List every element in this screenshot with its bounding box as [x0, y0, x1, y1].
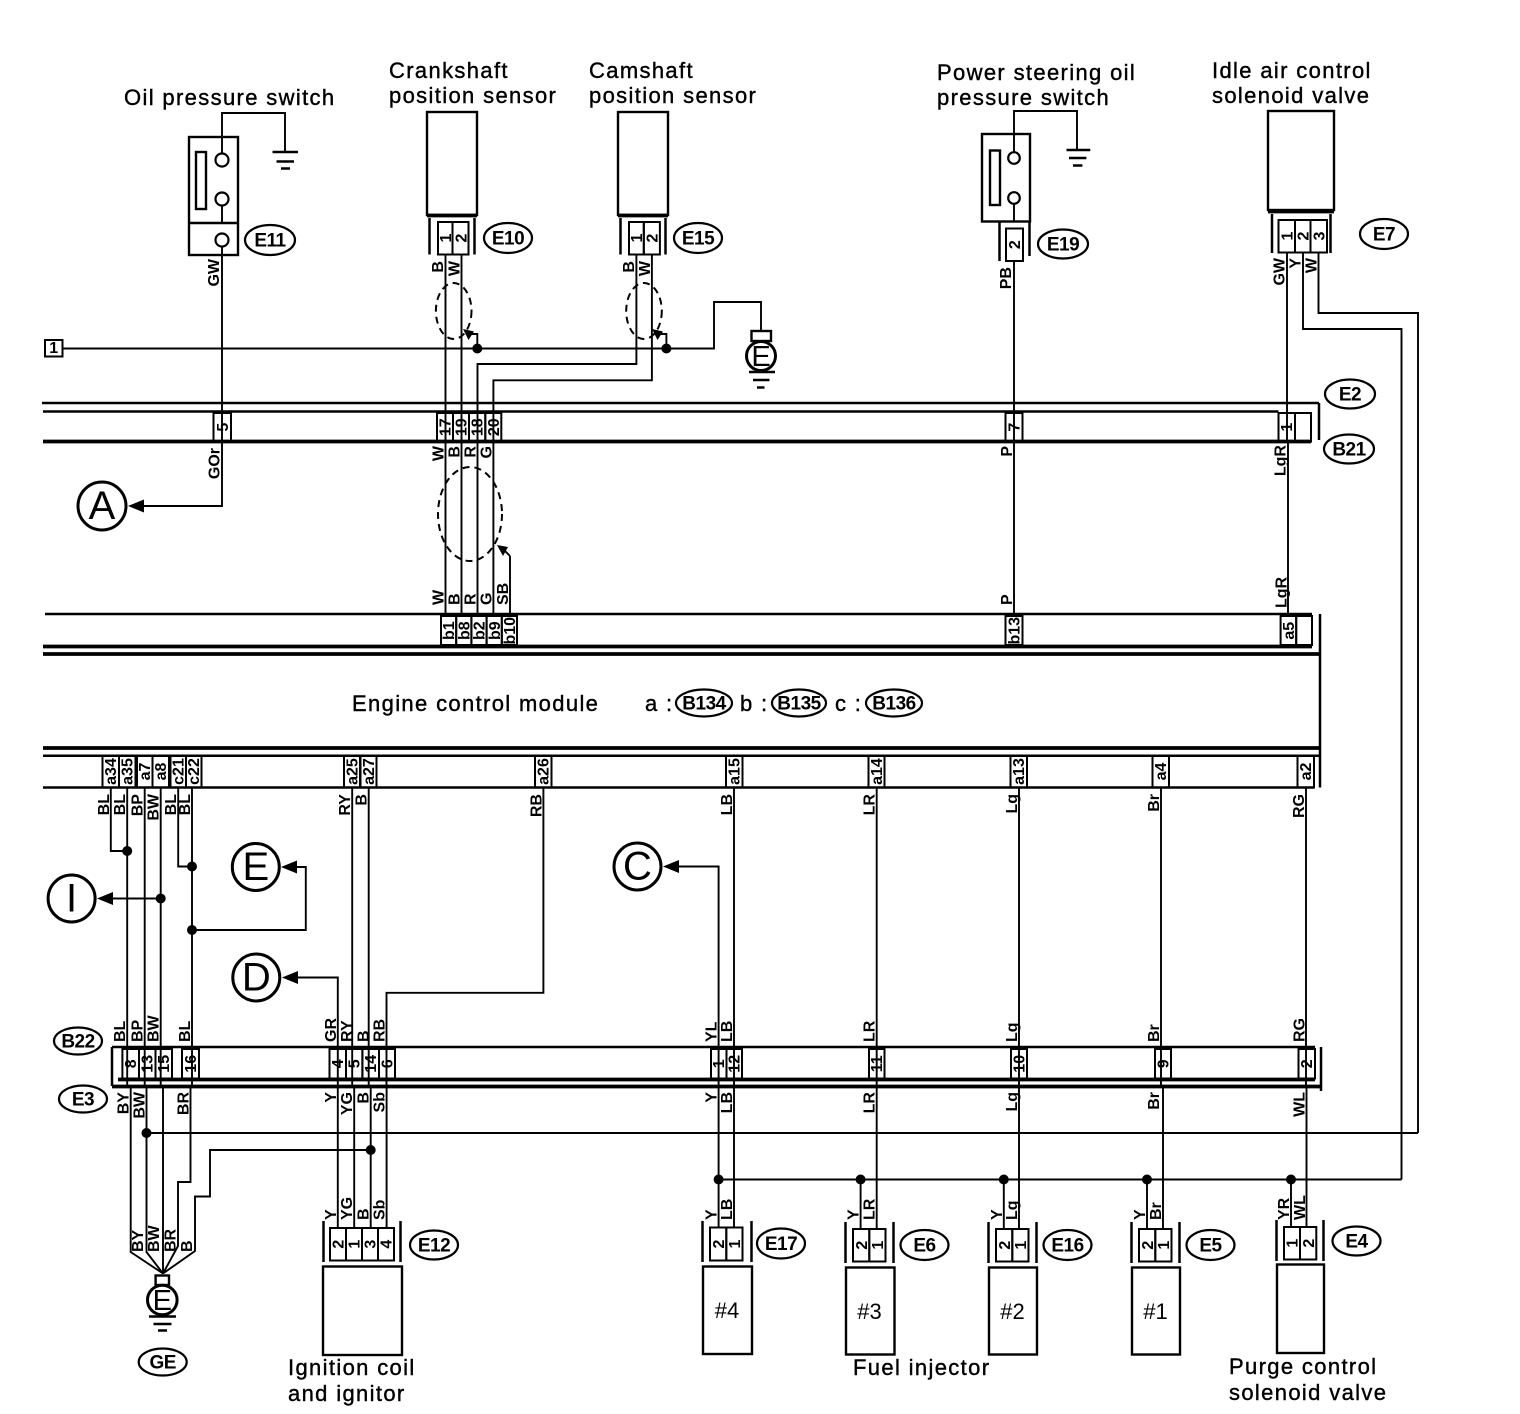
svg-text:pressure switch: pressure switch: [937, 85, 1110, 110]
svg-text:b :: b :: [740, 691, 769, 716]
bus E2/B21 top line: [42, 402, 1319, 405]
pin 9: [1155, 1049, 1173, 1079]
wire YG pin 5 to E12 pin 1: [353, 1087, 355, 1229]
svg-text:E12: E12: [418, 1236, 450, 1257]
wire B pin19 to b8: [461, 442, 463, 617]
crankshaft position sensor E10 body: [427, 112, 477, 255]
svg-text:1: 1: [1013, 1241, 1030, 1250]
power steering oil pressure switch E19 body: [982, 134, 1030, 222]
svg-text:LB: LB: [719, 1021, 736, 1042]
pin b1: [441, 616, 458, 645]
injector 2 body: [989, 1268, 1037, 1355]
pin 2 E3: [1299, 1049, 1317, 1079]
svg-text:12: 12: [727, 1055, 744, 1073]
wire Y pin 4 to E12 pin 2: [337, 1087, 339, 1229]
wire labels B W E10: [430, 260, 464, 276]
junction dot a34-a35: [122, 846, 132, 856]
shield capsule E15: [626, 283, 662, 339]
wire BL a34 joins a35: [111, 788, 127, 852]
svg-text:11: 11: [869, 1055, 886, 1072]
ECM top connector line: [45, 613, 1312, 616]
connector ref E15: [674, 223, 722, 253]
svg-text:Y: Y: [846, 1209, 863, 1220]
ECM top border thick: [43, 645, 1312, 649]
wire B a27 to pin 14: [368, 788, 370, 1087]
pin 16: [182, 1049, 200, 1079]
svg-text:16: 16: [183, 1055, 200, 1073]
svg-text:10: 10: [1012, 1055, 1029, 1073]
wire PB from E19 to bus pin 7: [1013, 261, 1015, 442]
connector ref E10: [484, 223, 532, 253]
svg-text:D: D: [242, 956, 271, 1000]
shield drain junction dots: [472, 344, 671, 354]
svg-text:GOr: GOr: [207, 448, 224, 479]
wire labels above E5: [1132, 1202, 1165, 1220]
connector ref b B135: [740, 690, 826, 717]
svg-text:W: W: [447, 260, 464, 276]
label: Idle air control solenoid valve: [1212, 58, 1372, 108]
svg-text:BW: BW: [146, 1014, 163, 1042]
svg-text:4: 4: [330, 1059, 347, 1068]
wire BP a7 to pin 13: [144, 788, 146, 1087]
wire B from E10 pin1 to pin 17: [445, 255, 447, 442]
wire BL c22 to pin 16: [191, 788, 193, 1087]
svg-text:E16: E16: [1051, 1236, 1083, 1257]
pin 12: [727, 1049, 744, 1079]
svg-text:Idle air control: Idle air control: [1212, 58, 1372, 83]
svg-text:and ignitor: and ignitor: [288, 1381, 406, 1406]
svg-text:solenoid valve: solenoid valve: [1229, 1380, 1387, 1405]
injector 3 body: [846, 1268, 895, 1355]
wire GW from E7 pin1 to bus pin 1: [1286, 253, 1288, 442]
pin b8: [456, 616, 473, 645]
page ref circle A: [78, 482, 144, 530]
wire LR pin 11 to injector 3: [876, 1087, 878, 1230]
svg-text:Y: Y: [1288, 258, 1305, 269]
svg-text:LgR: LgR: [1273, 445, 1290, 477]
wire LB pin 12 to injector 4: [733, 1087, 735, 1228]
svg-text:2: 2: [453, 233, 470, 242]
injector 3 connector E6: [846, 1222, 894, 1263]
svg-text:YG: YG: [339, 1197, 356, 1220]
ground E box circle: [747, 331, 776, 388]
page ref circle I: [48, 875, 166, 922]
pin 1 E2/B21: [1279, 413, 1312, 442]
pin c22: [186, 756, 203, 788]
wire labels below ECM row: [96, 793, 1308, 821]
svg-text:R: R: [463, 593, 480, 605]
svg-text:E7: E7: [1373, 225, 1395, 246]
svg-text:Purge control: Purge control: [1229, 1354, 1377, 1379]
page ref circle E: [187, 844, 306, 936]
svg-text:W: W: [431, 589, 448, 605]
ECM right border: [1319, 614, 1322, 788]
injector 1 connector E5: [1132, 1222, 1180, 1263]
wire E11 pin to top ground: [222, 113, 285, 154]
wire label P above b13: [999, 594, 1016, 605]
svg-text:14: 14: [363, 1055, 380, 1073]
svg-text:W: W: [637, 260, 654, 276]
svg-text:BR: BR: [163, 1228, 180, 1252]
svg-text:Br: Br: [1146, 1024, 1163, 1042]
svg-text:a8: a8: [153, 763, 170, 781]
svg-text:Lg: Lg: [1004, 1022, 1021, 1042]
svg-text:18: 18: [470, 418, 487, 436]
label: Camshaft position sensor: [589, 58, 757, 108]
connector ref E3: [59, 1086, 107, 1113]
wire label GOr: [207, 448, 224, 479]
wire labels W B R G below bus: [431, 445, 496, 461]
svg-text:3: 3: [1312, 231, 1329, 240]
svg-text:7: 7: [1007, 423, 1024, 432]
wire Br pin 9 to injector 1: [1162, 1087, 1164, 1230]
svg-text:E: E: [751, 341, 770, 373]
shield drain arrow E10: [463, 329, 477, 349]
wire W pin17 to b1: [445, 442, 447, 617]
pin b10: [502, 616, 519, 645]
pin 8: [122, 1049, 140, 1079]
svg-text:Lg: Lg: [1004, 1200, 1021, 1220]
label: Purge control solenoid valve: [1229, 1354, 1387, 1405]
label: Engine control module: [352, 691, 599, 716]
label: Ignition coil and ignitor: [288, 1355, 416, 1406]
wire BW pin 13 to ground funnel: [147, 1087, 164, 1274]
svg-text:b13: b13: [1007, 617, 1024, 645]
svg-text:4: 4: [379, 1240, 396, 1249]
svg-text:LB: LB: [719, 1199, 736, 1220]
wire BL a35 to pin 8: [126, 788, 128, 1087]
svg-text:E: E: [242, 845, 269, 889]
wire Sb pin 6 to E12 pin 4: [386, 1087, 388, 1229]
wire labels below bus E3: [116, 1091, 1309, 1119]
svg-text:position sensor: position sensor: [589, 83, 757, 108]
injector 4 body: [703, 1267, 752, 1355]
svg-text:B: B: [447, 593, 464, 605]
svg-text:a5: a5: [1281, 622, 1298, 640]
wire label LgR above a5: [1274, 576, 1291, 608]
idle air control solenoid valve E7 body: [1268, 111, 1334, 253]
pin 13: [139, 1049, 157, 1079]
wire BL c21 joins c22: [178, 788, 192, 867]
wire label LgR below pin 1: [1273, 445, 1290, 477]
pin 20: [485, 413, 503, 442]
svg-text:5: 5: [215, 423, 232, 432]
svg-text:position sensor: position sensor: [389, 83, 557, 108]
label: Power steering oil pressure switch: [937, 60, 1136, 110]
ECM bottom connector line: [43, 786, 1314, 789]
svg-text:2: 2: [1140, 1241, 1157, 1250]
wire WL pin 2 to purge valve: [1306, 1087, 1308, 1228]
bus E2/B21 thick line: [43, 440, 1311, 444]
svg-text:LR: LR: [862, 1198, 879, 1220]
pin a8: [153, 756, 171, 788]
pin 18: [469, 413, 487, 442]
label: Oil pressure switch: [124, 85, 335, 110]
pin a4: [1153, 756, 1171, 788]
svg-text:a2: a2: [1298, 763, 1315, 781]
wire label GW: [206, 258, 223, 286]
svg-text:GE: GE: [149, 1353, 175, 1374]
bus E2/B21 second line: [43, 410, 1279, 413]
wire RG a2 to pin 2: [1305, 788, 1307, 1087]
svg-text:3: 3: [363, 1240, 380, 1249]
svg-text:E15: E15: [682, 229, 715, 250]
svg-text:B: B: [356, 1030, 373, 1042]
pin 5 E3: [346, 1049, 364, 1079]
svg-text:Ignition coil: Ignition coil: [288, 1355, 416, 1380]
svg-text:1: 1: [1156, 1241, 1173, 1250]
svg-text:a15: a15: [727, 758, 744, 785]
svg-text:Oil pressure switch: Oil pressure switch: [124, 85, 335, 110]
svg-text:1: 1: [438, 233, 455, 242]
svg-text:17: 17: [438, 418, 455, 436]
svg-text:1: 1: [1279, 423, 1296, 432]
ground symbol E19: [1067, 150, 1091, 166]
svg-text:B: B: [356, 1208, 373, 1220]
svg-text:E2: E2: [1339, 385, 1361, 406]
connector ref a B134: [645, 690, 732, 717]
svg-text:8: 8: [123, 1059, 140, 1068]
svg-text:BW: BW: [146, 1224, 163, 1252]
ignition coil connector E12: [324, 1221, 401, 1262]
svg-text:RG: RG: [1292, 1018, 1309, 1042]
svg-text:Engine control module: Engine control module: [352, 691, 599, 716]
svg-text:B: B: [179, 1240, 196, 1252]
wire Y stub injector 1: [1142, 1175, 1152, 1230]
wire Y pin 1 to injector 4: [714, 1087, 724, 1228]
svg-text:a13: a13: [1011, 758, 1028, 785]
pin a15: [726, 756, 744, 788]
connector ref E7: [1360, 219, 1408, 249]
wire BW a8 to pin 15: [160, 788, 162, 1087]
wire labels W B R G above ECM: [431, 589, 496, 605]
pin 7: [1006, 413, 1024, 442]
pin 10: [1011, 1049, 1029, 1079]
svg-text:6: 6: [380, 1059, 397, 1068]
pin a14: [869, 756, 887, 788]
ECM top border second: [43, 652, 1320, 656]
injector 4 connector E17: [703, 1221, 752, 1262]
wire RB a26 to pin 6: [387, 788, 544, 1087]
svg-text:#3: #3: [857, 1299, 881, 1324]
svg-text:A: A: [89, 484, 116, 528]
page ref circle D: [233, 954, 338, 1087]
wire B branch to ground funnel: [163, 1145, 376, 1274]
shield capsule harness: [438, 467, 502, 561]
connector ref E11: [245, 225, 295, 255]
connector ref GE: [139, 1349, 187, 1376]
connector ref E12: [410, 1231, 458, 1260]
pin 5: [214, 413, 233, 442]
wire labels above bus B22: [112, 1014, 1308, 1042]
svg-text:B: B: [430, 261, 447, 273]
svg-text:W: W: [1304, 257, 1321, 273]
svg-text:9: 9: [1156, 1059, 1173, 1068]
svg-text:a25: a25: [345, 758, 362, 785]
wire LgR pin1 to a5: [1287, 442, 1289, 617]
svg-text:a :: a :: [645, 691, 674, 716]
svg-text:2: 2: [1007, 240, 1024, 249]
wire Y stub injector 3: [856, 1175, 866, 1230]
svg-text:YR: YR: [1276, 1197, 1293, 1220]
bus B22/E3 thick line 1: [118, 1078, 1315, 1082]
svg-text:1: 1: [727, 1239, 744, 1248]
svg-text:B22: B22: [61, 1032, 94, 1053]
svg-text:GW: GW: [1272, 257, 1289, 285]
pin a13: [1011, 756, 1029, 788]
wire Y line across injectors: [719, 1179, 1402, 1181]
connector ref B22: [54, 1028, 102, 1055]
svg-text:E3: E3: [72, 1090, 94, 1111]
wire BY pin 8 to ground funnel: [131, 1087, 163, 1274]
wire R pin18 to b2: [477, 442, 479, 617]
pin c21: [171, 756, 188, 788]
injector 1 body: [1132, 1268, 1180, 1355]
wire labels B W E15: [621, 260, 654, 276]
pin 6: [379, 1049, 397, 1079]
wire LR a14 to pin 11: [876, 788, 878, 1087]
pin a26: [535, 756, 553, 788]
svg-text:BP: BP: [130, 1019, 147, 1042]
bus E2/B21 right bracket: [1318, 403, 1321, 440]
svg-text:PB: PB: [998, 267, 1015, 289]
svg-text:Sb: Sb: [372, 1199, 389, 1220]
svg-text:a27: a27: [361, 758, 378, 785]
wire W line across: [142, 1128, 1419, 1138]
page ref circle C: [614, 843, 719, 1087]
svg-text:Y: Y: [323, 1209, 340, 1220]
svg-text:Camshaft: Camshaft: [589, 58, 694, 83]
pin 4: [330, 1049, 348, 1079]
wire Lg a13 to pin 10: [1018, 788, 1020, 1087]
svg-text:1: 1: [870, 1241, 887, 1250]
pin a7: [137, 756, 154, 788]
wire label PB: [998, 267, 1015, 289]
pin 14: [362, 1049, 380, 1079]
shield drain arrow E15: [652, 329, 666, 349]
connector ref c B136: [835, 690, 922, 717]
svg-text:c22: c22: [186, 758, 203, 785]
svg-text:2: 2: [997, 1241, 1014, 1250]
wire Lg pin 10 to injector 2: [1018, 1087, 1020, 1230]
wire label WL below bus done above; labels above E4: [1276, 1195, 1309, 1220]
wire GW from E11 to bus pin 5: [221, 247, 223, 442]
wire B from E15 pin1: [478, 255, 637, 442]
svg-text:#1: #1: [1143, 1299, 1167, 1324]
ground symbol top left: [273, 152, 299, 169]
svg-text:B135: B135: [777, 694, 821, 715]
svg-text:b10: b10: [502, 617, 519, 645]
injector 2 connector E16: [989, 1222, 1037, 1263]
svg-text:a26: a26: [536, 758, 553, 785]
svg-text:E17: E17: [765, 1234, 797, 1255]
bus B22/E3 thick line 2: [112, 1085, 1321, 1089]
svg-text:Crankshaft: Crankshaft: [389, 58, 509, 83]
connector E19 pin 2: [1000, 222, 1030, 262]
wire Br a4 to pin 9: [1160, 788, 1162, 1087]
svg-text:2: 2: [331, 1240, 348, 1249]
connector ref E16: [1044, 1230, 1092, 1260]
svg-text:GW: GW: [206, 258, 223, 286]
svg-text:E6: E6: [913, 1236, 935, 1257]
wire P pin7 to b13: [1013, 442, 1015, 617]
svg-text:1: 1: [49, 340, 58, 357]
connector ref E2: [1325, 380, 1375, 409]
wire shield drain line 1: [63, 302, 762, 349]
svg-text:RB: RB: [372, 1019, 389, 1042]
connector ref E5: [1187, 1230, 1235, 1260]
svg-text:13: 13: [140, 1055, 157, 1073]
svg-text:20: 20: [486, 418, 503, 436]
pin 15: [156, 1049, 174, 1079]
connector ref E17: [757, 1229, 805, 1259]
svg-text:GR: GR: [323, 1018, 340, 1042]
svg-text:Fuel injector: Fuel injector: [853, 1355, 990, 1380]
wire G pin20 to b9: [492, 442, 494, 617]
junction dot c21-c22: [187, 862, 197, 872]
pin 1 E3: [711, 1049, 728, 1079]
purge valve connector E4: [1277, 1220, 1324, 1261]
pin a25: [344, 756, 362, 788]
svg-text:RY: RY: [339, 1020, 356, 1042]
wire labels GW Y W E7: [1272, 257, 1321, 285]
wire GOr from pin 5 to A: [142, 442, 222, 507]
svg-text:15: 15: [156, 1055, 173, 1073]
wire YR stub purge valve: [1286, 1175, 1296, 1228]
svg-text:BL: BL: [112, 1020, 129, 1042]
svg-text:Power steering oil: Power steering oil: [937, 60, 1136, 85]
pin b2: [471, 616, 488, 645]
pin 17: [437, 413, 455, 442]
pin a35: [119, 756, 137, 788]
shield capsule E10: [436, 283, 472, 339]
connector ref E19: [1038, 230, 1088, 259]
funnel wire labels: [130, 1224, 196, 1252]
ground E symbol bottom: [148, 1276, 178, 1331]
svg-text:E19: E19: [1047, 235, 1079, 256]
svg-text:B134: B134: [682, 694, 726, 715]
svg-text:E11: E11: [254, 231, 286, 252]
ECM bottom border thick: [43, 746, 1320, 750]
svg-text:E5: E5: [1199, 1236, 1222, 1257]
svg-text:2: 2: [1299, 1059, 1316, 1068]
bus B22/E3 right bracket: [1320, 1047, 1323, 1091]
svg-text:1: 1: [347, 1240, 364, 1249]
wire labels above E12: [323, 1197, 389, 1220]
svg-text:LR: LR: [862, 1020, 879, 1042]
oil pressure switch E11 body: [189, 137, 238, 255]
wire W from E15 pin2: [493, 255, 652, 442]
svg-text:19: 19: [454, 418, 471, 436]
svg-text:solenoid valve: solenoid valve: [1212, 83, 1370, 108]
pin a34: [103, 756, 121, 788]
svg-text:BY: BY: [130, 1229, 147, 1252]
svg-text:5: 5: [347, 1059, 364, 1068]
svg-text:1: 1: [629, 233, 646, 242]
ignition coil body: [323, 1267, 402, 1356]
wire labels above E16: [989, 1200, 1021, 1220]
wire LB a15 to pin 12: [733, 788, 735, 1087]
purge valve body: [1277, 1265, 1324, 1354]
connector ref E6: [901, 1230, 949, 1260]
wire E19 pin to ground: [1014, 111, 1077, 152]
camshaft position sensor E15 body: [618, 112, 668, 255]
svg-text:LgR: LgR: [1274, 576, 1291, 608]
wire label P below pin 7: [999, 446, 1016, 457]
connector ref E4: [1333, 1227, 1381, 1256]
svg-text:a4: a4: [1153, 763, 1170, 781]
svg-text:1: 1: [1285, 1239, 1302, 1248]
